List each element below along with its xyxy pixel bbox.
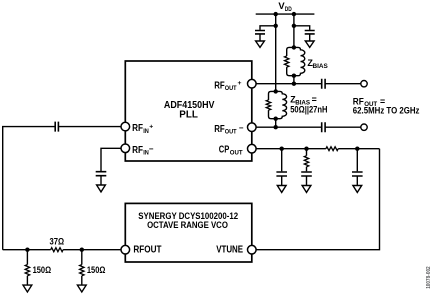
junction loop filter C1 [280,147,284,151]
svg-text:50Ω||27nH: 50Ω||27nH [290,105,327,115]
junction on VDD rail (left) [274,12,278,16]
junction ZBIAS1 to RFOUT+ line [292,82,296,86]
capacitor left VDD bypass [255,31,265,34]
svg-text:RF: RF [214,124,225,135]
svg-text:=: = [312,95,317,105]
svg-text:62.5MHz TO 2GHz: 62.5MHz TO 2GHz [353,105,420,115]
capacitor RFOUT+ AC coupling [322,79,325,89]
junction at 150ohm left [25,248,29,252]
svg-text:OUT: OUT [225,85,237,92]
svg-text:150Ω: 150Ω [33,265,52,275]
op-amp U1: ADF4150HV PLL block [125,61,252,161]
svg-text:IN: IN [143,128,149,135]
inductor-resistor network ZBIAS (upper, RFOUT+ bias) [285,45,305,83]
junction loop filter C3 [355,147,359,151]
svg-text:−: − [239,124,244,133]
svg-text:VTUNE: VTUNE [216,244,243,255]
svg-text:10078-002: 10078-002 [426,266,432,289]
pin CPOUT [248,144,257,153]
wire RFOUT+ to output [256,83,361,85]
svg-text:CP: CP [219,144,230,155]
svg-text:OUT: OUT [230,149,244,156]
svg-text:PLL: PLL [179,109,198,120]
capacitor RFOUT- AC coupling [322,122,325,132]
svg-text:+: + [149,123,153,130]
svg-text:37Ω: 37Ω [50,237,65,247]
wire RFIN- to bypass cap [101,148,121,171]
wire CPOUT to loop filter [256,148,379,150]
label SYNERGY DCYS100200-12 OCTAVE RANGE VCO [138,210,238,230]
wire VTUNE to loop filter [256,149,379,250]
svg-text:RF: RF [132,145,143,156]
capacitor loop filter C3 [356,149,358,172]
resistor loop filter series [326,147,338,151]
ground 150ohm left [23,285,32,292]
junction right bypass tap [292,24,296,28]
ground left VDD bypass [256,41,265,47]
resistor 150ohm right [81,250,83,265]
svg-text:+: + [238,80,242,87]
junction loop filter R1C2 [304,147,308,151]
svg-text:OCTAVE RANGE VCO: OCTAVE RANGE VCO [147,219,228,230]
resistor loop filter shunt [306,149,308,156]
ground 150ohm right [77,285,86,292]
label ADF4150HV PLL [164,100,215,120]
junction at 150ohm right [80,248,84,252]
capacitor loop filter C2 [306,167,308,172]
pin RFIN+ [121,122,130,131]
resistor 37ohm [51,248,63,252]
ground loop filter C2 [302,186,311,193]
inductor-resistor network ZBIAS (lower, RFOUT- bias) [266,89,286,127]
pin RFOUT+ [248,79,257,88]
wire RFIN+ input [3,127,121,250]
label ZBIAS (upper) [307,58,328,70]
svg-text:−: − [149,145,154,154]
label RFOUT = 62.5MHz TO 2GHz [353,96,420,115]
junction ZBIAS2 to RFOUT- line [274,125,278,129]
label ZBIAS = 50ohm||27nH [290,95,327,115]
pin RFOUT (VCO) [121,245,130,254]
svg-text:150Ω: 150Ω [87,265,106,275]
wire VDD left branch down to ZBIAS2 (crosses RFOUT+ line) [275,14,277,91]
svg-text:OUT: OUT [225,128,237,135]
wire to right bypass cap [294,26,310,30]
svg-text:RF: RF [132,123,143,134]
capacitor loop filter C1 [281,149,283,172]
svg-text:RFOUT: RFOUT [133,244,161,255]
wire VCO output to RFIN network [3,249,121,251]
capacitor RFIN- bypass [96,172,107,176]
capacitor right VDD bypass [305,31,315,34]
ground loop filter C3 [353,186,362,193]
wire RFOUT- to output [256,126,361,128]
svg-text:DD: DD [285,6,292,13]
pin RFOUT- [248,123,257,132]
junction left bypass tap [274,24,278,28]
terminal RFOUT+ output [361,81,367,87]
wire VDD rail [256,13,315,15]
ground loop filter C1 [277,186,286,193]
net VDD label [278,0,292,13]
capacitor RFIN+ AC coupling [55,122,58,132]
ground RFIN- bypass [97,185,106,192]
svg-text:BIAS: BIAS [313,63,329,70]
wire VDD right branch down to ZBIAS1 [293,14,295,47]
resistor 150ohm left [26,250,28,265]
VCO block: SYNERGY DCYS100200-12 [125,203,252,262]
terminal RFOUT- output [361,124,367,130]
wire to left bypass cap [260,26,276,30]
pin RFIN- [121,144,130,153]
ground right VDD bypass [305,41,314,47]
junction on VDD rail (right) [292,12,296,16]
pin VTUNE (VCO) [248,245,257,254]
svg-text:RF: RF [214,80,225,91]
